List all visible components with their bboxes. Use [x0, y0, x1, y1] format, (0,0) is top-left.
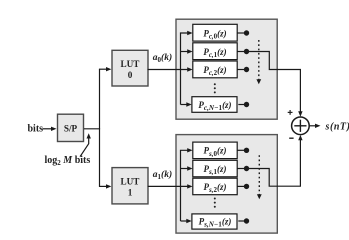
- LUT 0 block: [112, 50, 148, 86]
- node dot Pc2 output: [237, 69, 244, 71]
- node dot PcN-1 output: [238, 104, 244, 106]
- svg-text:LUT: LUT: [121, 176, 140, 186]
- filter Ps,1: [193, 160, 237, 177]
- node dot Pc1 output: [237, 51, 244, 53]
- filter Pc,N-1: [192, 97, 237, 113]
- vertical ellipsis bottom bank: [214, 198, 216, 200]
- S/P converter block: [58, 114, 84, 141]
- filter Ps,0: [193, 142, 237, 159]
- svg-text:s(nT): s(nT): [325, 121, 349, 132]
- commutator dashed arrow top bank: [258, 40, 260, 80]
- wire vertical split to LUTs: [99, 69, 101, 186]
- node dot Ps1 output: [237, 168, 244, 170]
- svg-text:a0(k): a0(k): [153, 52, 172, 64]
- wire S/P output: [84, 128, 100, 130]
- filter Ps,2: [193, 178, 237, 195]
- wire LUT0 output into bank (feeds row 3): [148, 69, 189, 71]
- filter Pc,1: [193, 43, 237, 60]
- svg-text:log2 M bits: log2 M bits: [45, 155, 91, 167]
- svg-text:S/P: S/P: [64, 123, 78, 133]
- label plus: [288, 111, 293, 113]
- wire to LUT 0: [99, 68, 107, 70]
- wire to LUT 1: [99, 185, 107, 187]
- filter bank block cosine (gray box): [176, 19, 277, 119]
- svg-text:bits: bits: [28, 124, 44, 135]
- commutator dashed arrow bottom bank: [258, 155, 260, 194]
- svg-text:LUT: LUT: [121, 59, 140, 69]
- wire branch arrow into PcN-1: [181, 104, 189, 106]
- svg-text:1: 1: [128, 187, 133, 197]
- wire branch bus top bank: [181, 33, 191, 105]
- wire LUT1 output into bank (feeds row 3): [148, 185, 189, 187]
- node dot PsN-1 output: [238, 220, 244, 222]
- wire commutator tap bottom bank to summer: [247, 139, 301, 186]
- annotation arrow for log2 M bits: [80, 138, 89, 157]
- node dot Pc0 output: [237, 32, 244, 34]
- wire branch arrow into Pc1: [181, 51, 189, 53]
- summer (adder): [292, 117, 310, 135]
- wire commutator tap top bank to summer: [247, 52, 301, 113]
- wire bits input arrow: [43, 128, 53, 130]
- filter Ps,N-1: [192, 214, 237, 229]
- LUT 1 block: [112, 168, 148, 204]
- svg-text:a1(k): a1(k): [153, 169, 172, 181]
- wire branch bus bottom bank: [181, 150, 191, 221]
- node dot Ps2 output: [237, 185, 244, 187]
- vertical ellipsis top bank: [214, 83, 216, 85]
- wire summer output: [309, 125, 316, 127]
- node dot Ps0 output: [237, 149, 244, 151]
- wire branch arrow into PsN-1: [181, 220, 189, 222]
- wire branch arrow into Ps1: [181, 168, 189, 170]
- filter Pc,2: [193, 61, 237, 78]
- filter Pc,0: [193, 24, 237, 41]
- label minus: [289, 137, 293, 139]
- svg-text:0: 0: [128, 70, 133, 80]
- filter bank block sine (gray box): [176, 135, 277, 234]
